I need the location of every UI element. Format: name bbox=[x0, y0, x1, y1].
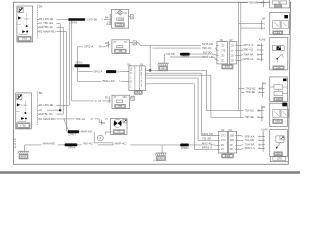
svg-text:2C: 2C bbox=[221, 59, 224, 62]
svg-text:M2-9D: M2-9D bbox=[203, 50, 212, 54]
svg-text:4C0A: 4C0A bbox=[118, 18, 123, 21]
svg-text:LPD-9E: LPD-9E bbox=[43, 103, 53, 107]
svg-text:2T: 2T bbox=[98, 100, 101, 103]
svg-text:BPE2-KD: BPE2-KD bbox=[103, 79, 115, 83]
svg-text:2D: 2D bbox=[230, 144, 233, 147]
svg-text:8341: 8341 bbox=[225, 66, 231, 69]
svg-text:b: b bbox=[283, 57, 284, 59]
svg-text:SPT1-A: SPT1-A bbox=[243, 43, 253, 47]
svg-text:PA-: PA- bbox=[105, 16, 109, 20]
svg-text:BPR1-A: BPR1-A bbox=[202, 146, 212, 150]
svg-text:9D: 9D bbox=[105, 42, 108, 45]
svg-text:M40: M40 bbox=[161, 66, 167, 70]
svg-text:302: 302 bbox=[136, 91, 141, 94]
svg-text:79J-N2: 79J-N2 bbox=[244, 108, 254, 112]
svg-text:SPI2-A: SPI2-A bbox=[94, 69, 103, 73]
svg-text:750-9E: 750-9E bbox=[249, 0, 258, 4]
svg-text:1365: 1365 bbox=[276, 99, 282, 101]
svg-text:LPD-9E: LPD-9E bbox=[87, 17, 97, 21]
svg-text:8345: 8345 bbox=[225, 155, 231, 158]
svg-text:1A: 1A bbox=[102, 122, 105, 125]
svg-text:2D: 2D bbox=[230, 148, 233, 151]
svg-text:C/PE4: C/PE4 bbox=[70, 22, 78, 25]
svg-text:MAP-KD: MAP-KD bbox=[81, 130, 92, 134]
svg-text:MAM-MD: MAM-MD bbox=[43, 29, 55, 33]
svg-text:CPD-1: CPD-1 bbox=[75, 61, 83, 64]
svg-text:79K-4C: 79K-4C bbox=[202, 46, 212, 50]
svg-text:MAP-4C: MAP-4C bbox=[115, 141, 127, 145]
svg-text:MAM-MD: MAM-MD bbox=[43, 117, 55, 121]
svg-text:M43: M43 bbox=[158, 156, 164, 160]
svg-text:2D: 2D bbox=[231, 54, 234, 57]
svg-text:1328: 1328 bbox=[117, 24, 123, 27]
svg-text:SPR1-A: SPR1-A bbox=[245, 146, 255, 150]
svg-text:2C: 2C bbox=[221, 148, 224, 151]
svg-text:78L-3C: 78L-3C bbox=[43, 112, 54, 116]
svg-text:B5-: B5- bbox=[39, 91, 43, 95]
svg-text:SPI2-A: SPI2-A bbox=[84, 45, 93, 49]
svg-text:1346: 1346 bbox=[276, 67, 282, 69]
svg-text:78K-4C: 78K-4C bbox=[83, 141, 94, 145]
svg-text:2D: 2D bbox=[134, 42, 137, 45]
svg-text:79E-N2: 79E-N2 bbox=[243, 48, 253, 52]
svg-text:7A: 7A bbox=[124, 41, 127, 44]
svg-text:1355: 1355 bbox=[275, 32, 281, 34]
svg-text:CPR-4: CPR-4 bbox=[68, 147, 76, 150]
svg-text:1305: 1305 bbox=[276, 6, 282, 8]
svg-text:2D: 2D bbox=[231, 44, 234, 47]
svg-text:1A: 1A bbox=[115, 12, 118, 15]
svg-text:CA: CA bbox=[123, 12, 127, 15]
svg-text:N2-9D: N2-9D bbox=[166, 52, 175, 56]
svg-text:2-213: 2-213 bbox=[13, 138, 17, 148]
svg-text:27D: 27D bbox=[221, 134, 226, 137]
svg-text:17: 17 bbox=[132, 99, 134, 101]
svg-text:SPR62: SPR62 bbox=[181, 147, 189, 150]
svg-text:17D: 17D bbox=[221, 139, 226, 142]
svg-text:79P-9E: 79P-9E bbox=[244, 115, 254, 119]
svg-text:BPR1-A: BPR1-A bbox=[203, 55, 213, 59]
svg-text:MAM-MD: MAM-MD bbox=[43, 141, 55, 145]
svg-text:78F-1A: 78F-1A bbox=[76, 117, 85, 121]
svg-text:29A: 29A bbox=[122, 96, 127, 99]
svg-text:17511: 17511 bbox=[20, 124, 27, 127]
svg-text:2T: 2T bbox=[113, 41, 116, 44]
svg-text:2T: 2T bbox=[114, 96, 117, 99]
svg-text:D6-: D6- bbox=[39, 4, 43, 8]
svg-text:M05: M05 bbox=[21, 154, 27, 158]
svg-text:A: A bbox=[99, 136, 101, 140]
svg-text:747: 747 bbox=[117, 131, 122, 134]
svg-text:79P-9E: 79P-9E bbox=[246, 90, 256, 94]
svg-text:A1/A6: A1/A6 bbox=[261, 128, 268, 131]
svg-text:1365: 1365 bbox=[277, 159, 283, 161]
svg-text:9D: 9D bbox=[99, 46, 102, 49]
svg-text:2D: 2D bbox=[221, 54, 224, 57]
svg-text:9D: 9D bbox=[105, 97, 108, 100]
svg-text:2D: 2D bbox=[221, 44, 224, 47]
svg-text:2D: 2D bbox=[231, 59, 234, 62]
svg-text:29D: 29D bbox=[230, 134, 235, 137]
svg-text:A1/A6: A1/A6 bbox=[259, 38, 266, 41]
svg-text:1365: 1365 bbox=[276, 154, 282, 156]
svg-text:79M-9A: 79M-9A bbox=[243, 52, 253, 56]
svg-text:31D: 31D bbox=[230, 139, 235, 142]
svg-text:SPR1-A: SPR1-A bbox=[243, 57, 253, 61]
svg-text:1050: 1050 bbox=[22, 38, 28, 41]
svg-text:1306: 1306 bbox=[275, 121, 281, 123]
svg-text:CPR-1: CPR-1 bbox=[68, 134, 76, 137]
svg-text:17D: 17D bbox=[221, 49, 226, 52]
svg-text:2D: 2D bbox=[221, 144, 224, 147]
svg-text:79L-9D: 79L-9D bbox=[202, 137, 211, 141]
svg-text:SPI2-KD: SPI2-KD bbox=[202, 132, 213, 136]
